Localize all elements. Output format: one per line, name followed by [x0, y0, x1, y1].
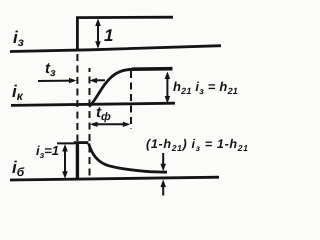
dimension arrow h21 level — [166, 75, 168, 101]
svg-text:1: 1 — [104, 26, 113, 45]
svg-text:iб: iб — [12, 158, 25, 179]
dimension arrow amplitude 1 — [97, 21, 99, 47]
wire iB decay curve — [89, 144, 167, 173]
wire dashed line t0 (input step instant) — [76, 54, 78, 141]
svg-text:iк: iк — [12, 82, 24, 103]
svg-text:iз: iз — [13, 28, 24, 49]
svg-text:(1-h21) iз = 1-h21: (1-h21) iз = 1-h21 — [146, 137, 249, 153]
wire iE step waveform — [77, 17, 173, 51]
wire iK rise curve — [89, 69, 133, 106]
wire iB pulse — [76, 143, 79, 180]
wire dashed line t2 (rise complete) — [130, 71, 132, 129]
svg-text:iз=1: iз=1 — [36, 143, 59, 160]
svg-text:tз: tз — [45, 60, 56, 79]
dimension arrow tf — [93, 123, 127, 125]
wire iK plateau (steady level h21) — [132, 67, 173, 71]
svg-text:tф: tф — [96, 104, 111, 123]
wire dashed line t1 (collector current start) — [89, 68, 91, 178]
node iB axis (base-current time axis) — [10, 177, 219, 180]
dimension arrow 1-h21 residual level — [162, 153, 164, 196]
dimension arrow tz left — [38, 80, 74, 82]
svg-text:h21 iз = h21: h21 iз = h21 — [173, 79, 238, 96]
dimension arrow iE=1 on base pulse — [64, 147, 66, 176]
dimension arrow tz right — [92, 79, 105, 81]
node iE axis (emitter-current time axis) — [10, 46, 221, 52]
node iK axis (collector-current time axis) — [11, 103, 175, 105]
